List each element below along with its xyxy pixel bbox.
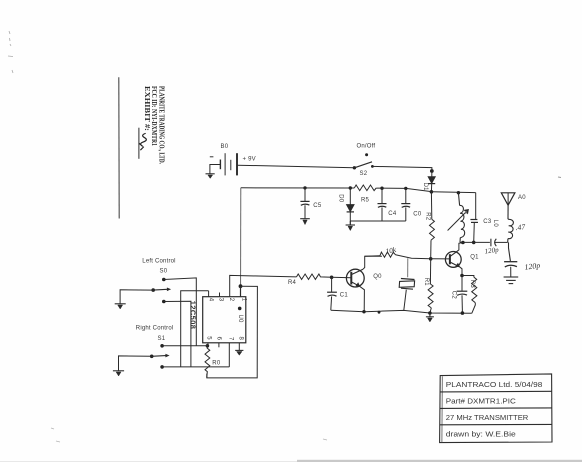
pin 7 number — [227, 337, 233, 341]
node supply junction — [430, 190, 434, 194]
wire S1 common to ground — [119, 356, 152, 371]
wire pin4 net — [181, 291, 209, 367]
wire R4 to U0 pin2 — [230, 275, 297, 296]
C3 label — [483, 219, 492, 225]
pin 4 stub — [208, 291, 210, 297]
pin 8 stub — [238, 343, 240, 350]
C2 label — [450, 291, 456, 300]
wire S0 common to ground — [120, 290, 153, 304]
rail junction dots — [362, 310, 464, 315]
capacitor C4 — [378, 188, 387, 221]
transistor Q1 — [445, 250, 461, 267]
node Q1 base — [429, 257, 433, 261]
pin 3 stub — [219, 293, 221, 297]
wire tank top — [431, 191, 475, 194]
battery minus sign — [210, 156, 214, 158]
node bus C5 — [303, 186, 306, 189]
wire battery to switch — [237, 165, 354, 168]
svg-text:EXHIBIT #:: EXHIBIT #: — [143, 86, 151, 131]
node tank bottom — [461, 241, 465, 245]
node bus C0 — [404, 187, 407, 190]
pin 7 stub wire — [228, 343, 230, 367]
svg-text:C0: C0 — [413, 212, 422, 218]
exhibit underline — [138, 128, 140, 159]
wire VDD loop to R0 — [207, 286, 258, 378]
pin 1 mark dot — [238, 307, 242, 311]
pin 6 stub — [218, 343, 220, 348]
node C3 bottom — [472, 241, 476, 245]
title block box — [440, 374, 552, 443]
svg-text:R3: R3 — [469, 280, 475, 289]
svg-text:Q1: Q1 — [470, 255, 479, 261]
L0 tuning arrow — [448, 210, 469, 231]
handwritten exhibit number 3 — [139, 134, 146, 150]
svg-text:L0: L0 — [492, 220, 498, 228]
svg-text:R1: R1 — [423, 278, 429, 287]
10k label — [385, 246, 397, 256]
svg-text:7: 7 — [227, 337, 233, 341]
12C508 label — [188, 301, 197, 330]
R0 label — [212, 360, 221, 366]
svg-text:8: 8 — [238, 337, 244, 341]
pin 5 stub — [207, 343, 209, 346]
battery ground — [206, 174, 215, 179]
resistor R2 choke — [430, 192, 435, 259]
U0 label — [237, 315, 243, 324]
pin 3 number — [218, 298, 224, 302]
battery negative wire — [210, 165, 221, 174]
battery B0 label — [221, 144, 229, 150]
svg-text:U0: U0 — [237, 315, 243, 324]
120p shunt label — [524, 261, 541, 272]
pin 8 ground — [235, 350, 243, 355]
node pin5 — [206, 344, 210, 348]
wire Q0 emitter — [360, 286, 365, 311]
node Q1 emitter — [460, 274, 464, 278]
svg-text:C5: C5 — [313, 203, 322, 209]
capacitor C5 — [300, 188, 309, 219]
pin 5 number — [206, 336, 212, 340]
wire S0 top to pin4 column — [164, 278, 197, 346]
R5 label — [361, 198, 370, 204]
Q1 label — [470, 255, 479, 261]
svg-text:1: 1 — [240, 298, 246, 302]
capacitor C3 — [470, 193, 478, 243]
resistor R3 — [462, 276, 477, 314]
transistor Q0 — [346, 269, 364, 287]
svg-text:C3: C3 — [483, 219, 492, 225]
node bus C4 — [380, 187, 383, 190]
R1 label — [423, 278, 429, 287]
wire Q1 base — [431, 258, 450, 260]
S0 label — [160, 269, 168, 275]
switch pivot dot — [365, 153, 368, 156]
wire S1 top to pin5 — [162, 345, 207, 347]
Right Control label — [136, 325, 174, 331]
earth ground — [504, 277, 519, 284]
stamp underline rule — [118, 77, 120, 218]
svg-text:+ 9V: + 9V — [243, 156, 256, 162]
supply bus wire — [241, 188, 432, 192]
C5 label — [313, 203, 322, 209]
svg-text:.47: .47 — [515, 222, 527, 232]
resistor R5 — [354, 185, 376, 191]
capacitor C0 — [401, 188, 410, 221]
S1 label — [158, 336, 166, 342]
svg-text:2: 2 — [228, 298, 234, 302]
svg-text:S2: S2 — [360, 171, 368, 177]
svg-text:S0: S0 — [160, 269, 168, 275]
L0 label — [492, 220, 498, 228]
node L0 top — [457, 191, 460, 194]
resistor R0 — [205, 346, 210, 378]
node bus D0 — [349, 186, 352, 189]
antenna A0 — [501, 193, 515, 206]
C1 label — [340, 293, 349, 299]
stamp text EXHIBIT #: — [143, 86, 151, 131]
svg-text:drawn by: W.E.Bie: drawn by: W.E.Bie — [446, 429, 516, 438]
title row 2 — [446, 396, 517, 405]
R2 label — [425, 212, 431, 221]
svg-text:C2: C2 — [450, 291, 456, 300]
svg-text:A0: A0 — [518, 195, 526, 201]
120p label — [484, 246, 499, 256]
D1 label — [422, 183, 428, 192]
svg-text:C1: C1 — [340, 293, 349, 299]
stamp text FCC ID: NYI-DXMTR1 — [150, 86, 158, 146]
crystal X0 — [399, 258, 414, 310]
svg-text:R5: R5 — [361, 198, 370, 204]
capacitor C2 — [457, 276, 468, 312]
wire C4 C0 tie — [350, 221, 406, 225]
diode D1 — [428, 177, 435, 192]
stamp text PLANRITE TRADING CO., LTD. — [158, 86, 166, 164]
svg-text:Left Control: Left Control — [142, 259, 175, 265]
pin 4 number — [207, 298, 213, 302]
wire switch to D1 — [372, 166, 433, 176]
.47 label — [515, 222, 527, 232]
pin 8 number — [238, 337, 244, 341]
C0 label — [413, 212, 422, 218]
svg-text:120p: 120p — [484, 246, 499, 256]
zener D0 — [347, 188, 354, 225]
svg-text:Part# DXMTR1.PIC: Part# DXMTR1.PIC — [446, 396, 517, 405]
switch S0 — [151, 278, 171, 304]
wire S1 bottom to pin7 — [162, 366, 229, 368]
D0 ground — [346, 225, 355, 231]
capacitor C1 — [327, 277, 337, 310]
+9V label — [243, 156, 256, 162]
svg-text:27 MHz TRANSMITTER: 27 MHz TRANSMITTER — [446, 413, 529, 422]
svg-text:B0: B0 — [221, 144, 229, 150]
pin 6 number — [215, 337, 221, 341]
svg-text:D1: D1 — [422, 183, 428, 192]
wire Q1 emitter — [460, 267, 463, 276]
svg-text:120p: 120p — [524, 261, 541, 272]
svg-text:Q0: Q0 — [373, 274, 382, 280]
variable inductor L0 — [458, 193, 464, 243]
svg-text:R0: R0 — [212, 360, 221, 366]
node R4 C1 — [330, 276, 334, 280]
Q0 label — [373, 274, 382, 280]
pin 1 stub — [240, 286, 242, 297]
capacitor 120p shunt — [504, 242, 517, 276]
svg-text:S1: S1 — [158, 336, 166, 342]
svg-text:Right Control: Right Control — [136, 325, 174, 331]
node VDD pin1 — [239, 284, 243, 288]
wire Q0 collector — [363, 256, 382, 269]
D0 label — [337, 194, 343, 203]
scan shadow bottom — [0, 460, 582, 462]
S0 ground — [115, 304, 126, 309]
svg-text:R4: R4 — [288, 280, 297, 286]
wire base Q0 — [332, 276, 352, 278]
S2 label — [360, 171, 368, 177]
R4 label — [288, 280, 297, 286]
pin 1 number — [240, 298, 246, 302]
wire Q1 collector — [459, 243, 463, 251]
resistor 10k — [365, 252, 396, 257]
wire tank bottom — [460, 241, 490, 243]
emitter rail — [331, 310, 472, 313]
antenna coil L1 — [508, 205, 514, 242]
R3 label — [469, 280, 475, 289]
Left Control label — [142, 259, 175, 265]
resistor R1 — [428, 259, 433, 313]
svg-text:R2: R2 — [425, 212, 431, 221]
wire S0 bottom — [164, 301, 191, 367]
scan speckles bottom — [51, 428, 327, 442]
svg-text:PLANTRACO Ltd. 5/04/98: PLANTRACO Ltd. 5/04/98 — [446, 380, 543, 389]
scan speckles left edge — [8, 31, 13, 73]
svg-text:6: 6 — [215, 337, 221, 341]
S1 ground — [113, 371, 124, 376]
svg-text:D0: D0 — [337, 194, 343, 203]
svg-text:C4: C4 — [388, 211, 397, 217]
On/Off label — [357, 143, 376, 149]
switch S2 — [353, 162, 374, 170]
IC U0 body — [203, 297, 246, 343]
resistor R4 — [297, 274, 333, 279]
pin 2 number — [228, 298, 234, 302]
svg-text:3: 3 — [218, 298, 224, 302]
battery B0 — [220, 153, 237, 175]
title row 4 — [446, 429, 516, 438]
svg-text:On/Off: On/Off — [357, 143, 376, 149]
rail ground — [426, 313, 434, 322]
svg-text:5: 5 — [206, 336, 212, 340]
capacitor 120p coupling — [491, 239, 508, 247]
C4 label — [388, 211, 397, 217]
C5 ground — [300, 219, 310, 225]
wire supply drop to U0 — [240, 188, 242, 286]
switch S1 — [150, 344, 170, 369]
wire base node left — [396, 255, 431, 259]
svg-text:4: 4 — [207, 298, 213, 302]
title row 1 — [446, 380, 543, 389]
A0 label — [518, 195, 526, 201]
title row 3 — [446, 413, 529, 422]
